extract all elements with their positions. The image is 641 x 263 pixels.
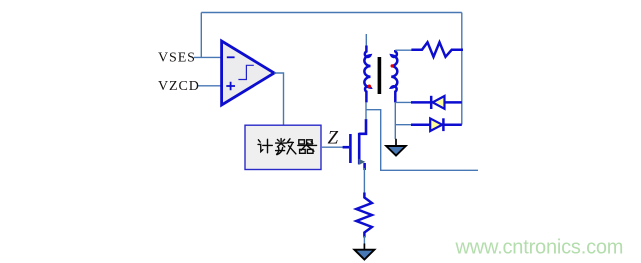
label 计数器 (drawn strokes)	[258, 139, 317, 155]
wire top rail	[201, 12, 462, 14]
wire drain to transformer	[365, 102, 367, 119]
svg-text:VZCD: VZCD	[158, 79, 200, 94]
resistor R1	[411, 42, 463, 57]
resistor R2	[356, 193, 372, 238]
transformer T1 core	[378, 57, 382, 94]
block counter 计数器	[245, 125, 321, 169]
wire comparator output to counter	[274, 73, 283, 125]
op-amp comparator U1	[222, 41, 275, 105]
svg-text:www.cntronics.com: www.cntronics.com	[455, 237, 624, 259]
diode D2 (points right)	[411, 118, 462, 131]
wire transformer left winding top stub	[365, 34, 367, 47]
svg-text:Z: Z	[328, 128, 339, 149]
器	[299, 140, 305, 144]
transformer T1 polarity dot left	[368, 85, 371, 88]
计	[258, 140, 260, 142]
wire branch junction to lower-left net	[366, 110, 478, 171]
transistor Q1 MOSFET	[343, 119, 366, 170]
transistor Q1 source arrow	[359, 159, 366, 165]
wire resistor to ground	[363, 236, 365, 245]
wire VSES input	[194, 57, 221, 85]
diode D1 (points left)	[411, 96, 462, 109]
wire diode row 2 left	[395, 124, 412, 126]
wire right rail	[461, 13, 463, 125]
wire source to resistor	[363, 168, 365, 193]
transformer T1 polarity dot right	[391, 64, 394, 67]
ground (source resistor)	[354, 244, 374, 260]
svg-text:VSES: VSES	[158, 51, 196, 66]
transformer T1 right winding	[391, 50, 397, 102]
wire right winding top to resistor	[395, 49, 412, 51]
ground (transformer secondary)	[386, 139, 406, 156]
数	[276, 139, 287, 147]
wire right winding bottom node	[395, 102, 412, 139]
transformer T1 left winding	[364, 46, 370, 103]
wire counter output	[321, 146, 344, 148]
wire left drop to inverting input	[200, 13, 202, 58]
